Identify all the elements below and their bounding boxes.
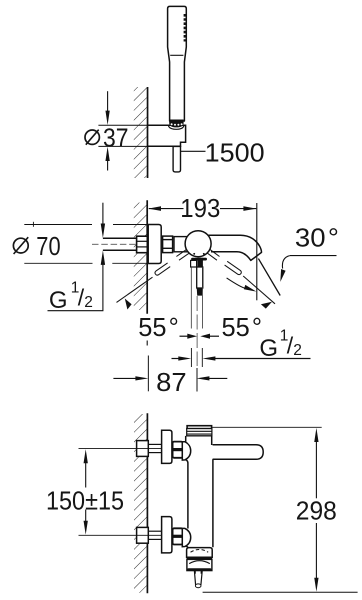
30 degree text underline and curved leader — [290, 255, 337, 257]
svg-text:55 °: 55 ° — [222, 312, 263, 342]
svg-text:150±15: 150±15 — [46, 486, 124, 516]
spout tube (plan) — [206, 445, 263, 460]
upper escutcheon — [162, 430, 172, 463]
dimension Ø37 extension lines — [98, 124, 147, 126]
shower hose below holder — [173, 146, 180, 172]
wall hatching (top drawing) — [134, 87, 147, 178]
body core — [187, 429, 213, 548]
spout — [208, 235, 262, 260]
outlet lower dark edge — [187, 568, 211, 571]
svg-text:55 °: 55 ° — [138, 312, 179, 342]
wall hatching (bottom drawing) — [134, 414, 147, 593]
outlet centerline — [196, 296, 198, 366]
hose nipple — [194, 571, 202, 585]
G1/2 right arrows — [172, 358, 180, 360]
svg-text:2: 2 — [84, 294, 93, 311]
joint line between head and handle — [170, 54, 183, 56]
handle outlet tip with white dots — [169, 120, 183, 128]
union fitting at wall — [137, 236, 148, 253]
right swing lever dashes — [207, 249, 275, 303]
lower in-wall fitting — [137, 527, 149, 543]
spray nozzle dots on head right edge — [184, 14, 187, 42]
svg-text:1500: 1500 — [205, 138, 265, 168]
body right edge segments — [211, 436, 213, 445]
supply pipe centerline — [92, 243, 136, 245]
30 degree angle arc with arrow — [227, 278, 246, 289]
lower hex nut — [173, 528, 183, 544]
holder cradle arc — [168, 125, 184, 129]
collar under sphere — [191, 258, 207, 261]
dimension 298 extension lines — [212, 426, 322, 428]
svg-text:2: 2 — [293, 342, 302, 359]
G1/2 leader with arrows pointing at pipe — [102, 203, 104, 226]
outlet lower piece — [187, 559, 212, 570]
dimension Ø70 extension lines — [24, 224, 92, 226]
body outline left with socket bulges — [185, 436, 187, 442]
dimension 87 — [147, 356, 149, 392]
shower outlet nipple — [197, 267, 203, 288]
left 55-degree leader arrow — [125, 299, 132, 310]
G1/2 ext lines at outlet — [190, 348, 192, 367]
30 degree direction line — [258, 259, 280, 296]
thin outlet silhouette lines — [190, 267, 192, 329]
svg-text:30 °: 30 ° — [295, 222, 339, 252]
swing arc arrows at outlet — [180, 335, 189, 337]
upper in-wall fitting — [137, 441, 149, 457]
small tick — [32, 222, 34, 227]
dimension 298 line with arrows — [314, 428, 318, 442]
left swing lever dashes — [117, 250, 189, 303]
supply pipe — [103, 237, 137, 239]
lower union socket horn — [182, 528, 190, 546]
wall surface line (top drawing) — [147, 87, 149, 178]
body top shoulder — [186, 435, 212, 437]
right 55-degree leader arrow — [261, 302, 272, 309]
right bar under collar — [197, 258, 203, 267]
svg-text:G: G — [259, 335, 278, 362]
body ring — [187, 429, 212, 436]
dimension 150±15 extension lines — [79, 448, 162, 450]
upper union socket horn — [182, 442, 190, 460]
svg-text:193: 193 — [180, 193, 220, 223]
svg-text:298: 298 — [296, 496, 337, 526]
wall surface line stub below 55 text — [146, 341, 148, 346]
sphere body — [185, 231, 211, 257]
hand shower head and handle — [168, 6, 187, 121]
outlet dark band — [187, 557, 213, 559]
leader line for hose length — [181, 150, 206, 152]
dimension 193 line with arrows — [149, 208, 184, 210]
svg-text:G: G — [49, 287, 68, 314]
hex connection nut — [163, 236, 173, 253]
lower pipe through wall — [148, 530, 161, 532]
outlet housing top piece — [187, 548, 213, 558]
wall hatching (middle drawing) — [134, 203, 147, 311]
upper pipe through wall — [148, 443, 161, 445]
svg-text:87: 87 — [156, 367, 187, 397]
svg-text:70: 70 — [36, 231, 60, 261]
arc line inside lower piece — [189, 561, 210, 564]
30 degree reference vertical line — [256, 203, 258, 300]
screw dots on sphere — [193, 253, 195, 255]
dimension Ø37 line with arrows — [107, 91, 109, 112]
hidden circle dashes in outlet — [191, 549, 209, 552]
body tube to sphere — [174, 237, 188, 252]
left box under collar — [191, 260, 197, 267]
lower escutcheon — [162, 517, 172, 553]
wall surface line (middle drawing) — [146, 200, 148, 313]
svg-text:37: 37 — [103, 123, 129, 153]
dimension 150±15 line with arrows — [84, 449, 88, 463]
upper hex nut — [173, 442, 183, 458]
wall holder bracket — [148, 125, 186, 146]
dimension text Ø 70 — [13, 238, 28, 253]
wall surface line (bottom drawing) — [146, 413, 148, 593]
escutcheon (middle drawing) — [148, 225, 161, 264]
dimension text Ø 37 — [85, 130, 99, 144]
body cap — [187, 426, 212, 429]
